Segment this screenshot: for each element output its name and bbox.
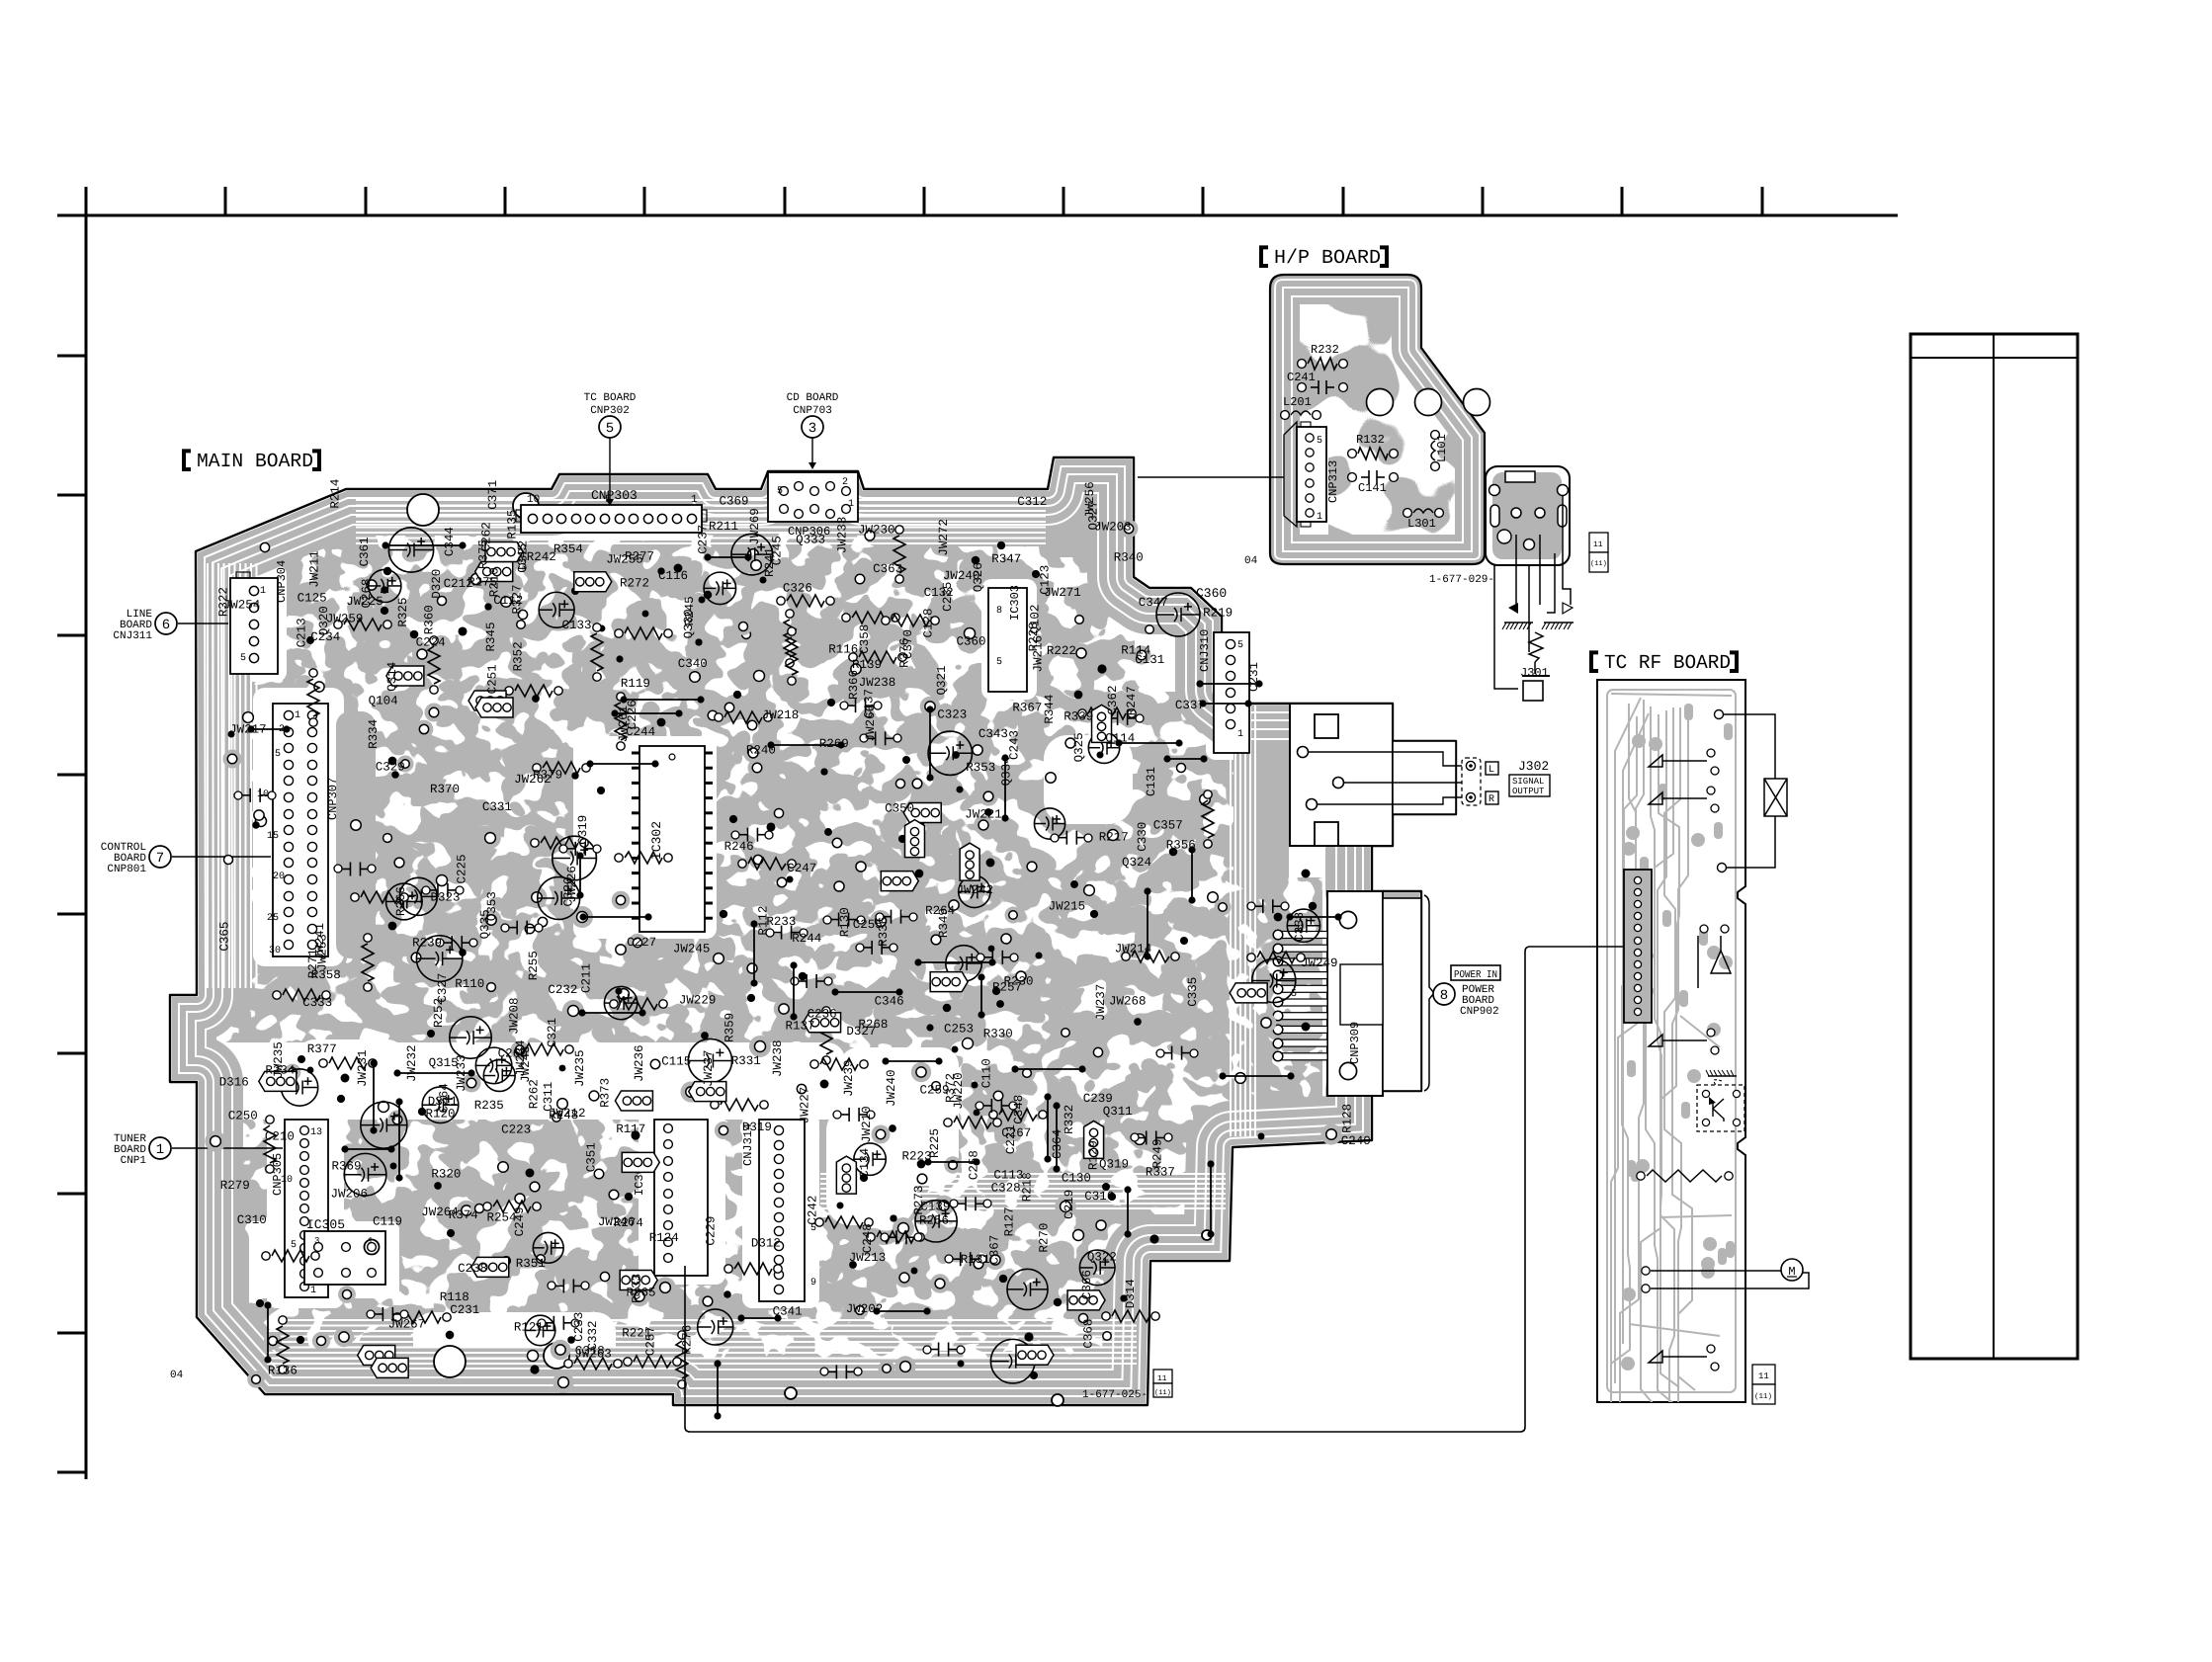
svg-text:Q311: Q311 bbox=[1103, 1105, 1133, 1119]
svg-text:C232: C232 bbox=[548, 983, 577, 997]
svg-text:C134: C134 bbox=[858, 1148, 872, 1178]
svg-text:1: 1 bbox=[691, 494, 698, 506]
svg-text:C341: C341 bbox=[773, 1305, 803, 1319]
J302 terminal plate bbox=[1462, 758, 1481, 805]
svg-text:C125: C125 bbox=[298, 591, 327, 605]
svg-text:C333: C333 bbox=[302, 996, 332, 1010]
svg-text:R222: R222 bbox=[1047, 644, 1076, 658]
mid symbol bbox=[1698, 925, 1731, 988]
IC305 bbox=[304, 1231, 385, 1285]
svg-text:7: 7 bbox=[156, 851, 164, 867]
svg-text:JW208: JW208 bbox=[508, 997, 522, 1035]
svg-text:R347: R347 bbox=[991, 552, 1021, 566]
L101 bbox=[1431, 431, 1440, 440]
svg-text:Q321: Q321 bbox=[935, 665, 949, 695]
C141 bbox=[1348, 473, 1357, 482]
svg-text:1: 1 bbox=[260, 586, 266, 597]
svg-text:C340: C340 bbox=[678, 657, 708, 671]
svg-text:C326: C326 bbox=[783, 581, 812, 595]
svg-text:C367: C367 bbox=[988, 1235, 1002, 1265]
svg-text:C245: C245 bbox=[771, 536, 785, 565]
svg-text:R327: R327 bbox=[510, 584, 524, 614]
CNP313 bbox=[1284, 422, 1297, 527]
svg-text:D322: D322 bbox=[517, 540, 531, 570]
motor bbox=[1642, 1267, 1650, 1275]
svg-text:R256: R256 bbox=[919, 1213, 949, 1227]
svg-text:6: 6 bbox=[162, 618, 170, 633]
svg-text:JW233: JW233 bbox=[836, 517, 850, 554]
svg-text:C310: C310 bbox=[237, 1213, 267, 1227]
svg-text:R340: R340 bbox=[1114, 550, 1144, 564]
svg-text:D319: D319 bbox=[742, 1121, 772, 1134]
svg-text:JW215: JW215 bbox=[1049, 899, 1086, 913]
svg-text:3: 3 bbox=[314, 1236, 319, 1246]
svg-text:R273: R273 bbox=[912, 1186, 926, 1215]
svg-text:C369: C369 bbox=[720, 495, 749, 509]
svg-text:R262: R262 bbox=[528, 1079, 542, 1109]
svg-text:JW226: JW226 bbox=[565, 866, 579, 903]
svg-text:C110: C110 bbox=[980, 1058, 994, 1088]
svg-text:R131: R131 bbox=[961, 1253, 990, 1267]
svg-text:Q324: Q324 bbox=[1122, 856, 1151, 870]
svg-text:R119: R119 bbox=[621, 677, 650, 691]
svg-text:JW210: JW210 bbox=[860, 1106, 874, 1143]
svg-text:C330: C330 bbox=[1136, 822, 1149, 852]
svg-text:C337: C337 bbox=[1175, 699, 1205, 712]
svg-text:CNP304: CNP304 bbox=[275, 560, 289, 603]
svg-text:R217: R217 bbox=[1099, 831, 1129, 845]
svg-text:R264: R264 bbox=[925, 904, 955, 918]
svg-text:R367: R367 bbox=[1012, 702, 1042, 715]
svg-text:R337: R337 bbox=[1146, 1166, 1175, 1180]
main board title bbox=[184, 451, 191, 469]
svg-text:R132: R132 bbox=[1356, 433, 1385, 447]
svg-text:JW242: JW242 bbox=[957, 883, 994, 897]
svg-text:C223: C223 bbox=[501, 1123, 531, 1137]
svg-text:JW271: JW271 bbox=[1044, 586, 1081, 600]
svg-text:R230: R230 bbox=[1004, 975, 1034, 989]
svg-text:R118: R118 bbox=[440, 1290, 469, 1304]
svg-text:JW214: JW214 bbox=[1115, 942, 1152, 956]
svg-text:R330: R330 bbox=[983, 1028, 1013, 1041]
svg-text:JW266: JW266 bbox=[864, 705, 878, 742]
svg-text:R356: R356 bbox=[1166, 838, 1196, 852]
svg-text:5: 5 bbox=[275, 749, 281, 760]
svg-text:5: 5 bbox=[1317, 436, 1322, 447]
svg-text:C115: C115 bbox=[661, 1055, 691, 1069]
svg-text:9: 9 bbox=[810, 1278, 816, 1288]
svg-text:C231: C231 bbox=[450, 1303, 479, 1317]
svg-text:JW236: JW236 bbox=[633, 1044, 646, 1082]
svg-text:JW238: JW238 bbox=[771, 1039, 785, 1077]
svg-text:1: 1 bbox=[368, 1236, 373, 1246]
R232 bbox=[1298, 360, 1307, 369]
svg-text:R: R bbox=[1489, 794, 1494, 805]
svg-text:JW229: JW229 bbox=[679, 994, 717, 1008]
dashed transistor bbox=[1708, 1075, 1737, 1077]
svg-text:R275: R275 bbox=[468, 576, 497, 590]
svg-text:JW256: JW256 bbox=[1083, 481, 1097, 519]
svg-text:Q314: Q314 bbox=[385, 662, 399, 692]
svg-text:1: 1 bbox=[310, 1286, 316, 1296]
svg-text:TC RF BOARD: TC RF BOARD bbox=[1604, 652, 1731, 675]
svg-text:C225: C225 bbox=[456, 854, 469, 883]
svg-text:R345: R345 bbox=[484, 622, 498, 651]
svg-text:CD BOARD: CD BOARD bbox=[787, 392, 839, 404]
svg-text:J301: J301 bbox=[1520, 666, 1549, 680]
svg-text:C119: C119 bbox=[373, 1215, 402, 1229]
svg-text:C227: C227 bbox=[627, 936, 656, 950]
svg-text:SIGNAL: SIGNAL bbox=[1512, 777, 1544, 787]
L301 bbox=[1404, 509, 1412, 518]
svg-text:H/P BOARD: H/P BOARD bbox=[1274, 247, 1381, 270]
svg-text:JW235: JW235 bbox=[573, 1049, 587, 1087]
svg-text:R270: R270 bbox=[1038, 1223, 1052, 1253]
svg-text:C267: C267 bbox=[1001, 1126, 1031, 1140]
svg-text:CNP1: CNP1 bbox=[121, 1155, 147, 1167]
svg-text:04: 04 bbox=[170, 1370, 184, 1381]
svg-text:R332: R332 bbox=[1063, 1105, 1076, 1134]
svg-text:R249: R249 bbox=[1151, 1138, 1165, 1168]
svg-text:C133: C133 bbox=[562, 619, 592, 632]
svg-text:C257: C257 bbox=[644, 1326, 658, 1356]
svg-text:C241: C241 bbox=[1287, 371, 1316, 384]
svg-text:R372: R372 bbox=[944, 1073, 958, 1103]
svg-text:C365: C365 bbox=[218, 922, 232, 952]
svg-text:C361: C361 bbox=[358, 537, 372, 566]
svg-text:C368: C368 bbox=[1081, 1319, 1095, 1349]
J302 jack block bbox=[1290, 704, 1393, 846]
svg-text:R266: R266 bbox=[394, 886, 408, 916]
svg-text:Q335: Q335 bbox=[478, 909, 492, 939]
svg-text:L301: L301 bbox=[1407, 517, 1436, 531]
svg-text:JW238: JW238 bbox=[859, 676, 896, 690]
svg-text:JW218: JW218 bbox=[762, 708, 800, 722]
svg-text:5: 5 bbox=[606, 421, 614, 437]
svg-text:R245: R245 bbox=[683, 596, 697, 625]
svg-text:JW272: JW272 bbox=[937, 519, 951, 556]
svg-text:C331: C331 bbox=[482, 800, 512, 814]
svg-text:C363: C363 bbox=[873, 562, 902, 576]
CNJ310 bbox=[1214, 632, 1249, 753]
svg-text:Q102: Q102 bbox=[1029, 605, 1043, 634]
tc rf symbols bbox=[1649, 755, 1707, 1363]
svg-text:C362: C362 bbox=[1106, 685, 1120, 714]
svg-text:R373: R373 bbox=[598, 1078, 612, 1108]
svg-text:1: 1 bbox=[156, 1142, 164, 1158]
svg-text:C128: C128 bbox=[921, 608, 935, 637]
svg-text:3: 3 bbox=[808, 421, 816, 437]
svg-text:R121: R121 bbox=[514, 1321, 544, 1335]
svg-text:R331: R331 bbox=[731, 1054, 761, 1068]
svg-text:JW234: JW234 bbox=[514, 1039, 528, 1077]
svg-text:R139: R139 bbox=[852, 658, 882, 672]
svg-text:C238: C238 bbox=[458, 1262, 487, 1276]
svg-text:JW221: JW221 bbox=[965, 808, 1002, 822]
svg-text:20: 20 bbox=[273, 872, 285, 882]
svg-text:JW203: JW203 bbox=[1094, 520, 1132, 534]
svg-text:C253: C253 bbox=[944, 1022, 974, 1036]
svg-text:C371: C371 bbox=[486, 480, 500, 510]
svg-text:R333: R333 bbox=[631, 1274, 644, 1303]
svg-text:R124: R124 bbox=[649, 1231, 679, 1245]
svg-text:R117: R117 bbox=[616, 1122, 645, 1136]
svg-text:5: 5 bbox=[996, 657, 1002, 668]
connector CNP304 bbox=[230, 578, 278, 674]
svg-text:R136: R136 bbox=[268, 1364, 298, 1377]
svg-text:C348: C348 bbox=[1012, 1095, 1026, 1124]
crystal bbox=[1715, 710, 1724, 719]
svg-text:C240: C240 bbox=[1341, 1134, 1371, 1148]
svg-text:11: 11 bbox=[1593, 540, 1603, 549]
svg-text:C243: C243 bbox=[1008, 730, 1022, 760]
svg-text:JW213: JW213 bbox=[849, 1251, 887, 1265]
svg-text:C219: C219 bbox=[1063, 1190, 1076, 1219]
svg-text:R255: R255 bbox=[527, 951, 541, 980]
CNP309 bbox=[1327, 891, 1383, 1096]
svg-text:R359: R359 bbox=[723, 1013, 736, 1042]
svg-text:JW233: JW233 bbox=[455, 1054, 468, 1092]
svg-text:C364: C364 bbox=[1051, 1129, 1064, 1159]
svg-text:MAIN BOARD: MAIN BOARD bbox=[197, 451, 313, 473]
svg-text:C132: C132 bbox=[924, 586, 954, 600]
IC304 bbox=[654, 1120, 708, 1276]
svg-text:C328: C328 bbox=[991, 1182, 1021, 1196]
svg-text:R274: R274 bbox=[614, 1216, 643, 1230]
tc rf title bbox=[1591, 652, 1598, 671]
svg-text:C130: C130 bbox=[1062, 1172, 1091, 1186]
long wires bbox=[685, 947, 1624, 1432]
svg-text:5: 5 bbox=[777, 486, 783, 497]
svg-text:1: 1 bbox=[1317, 512, 1322, 523]
svg-text:C249: C249 bbox=[513, 1206, 527, 1236]
svg-text:JW230: JW230 bbox=[858, 523, 895, 537]
svg-text:C335: C335 bbox=[1186, 977, 1200, 1007]
svg-text:JW225: JW225 bbox=[346, 595, 383, 609]
svg-text:C338: C338 bbox=[1293, 912, 1307, 942]
svg-text:JW227: JW227 bbox=[799, 1087, 812, 1124]
svg-text:JW267: JW267 bbox=[388, 1317, 426, 1331]
svg-text:R211: R211 bbox=[709, 520, 738, 534]
svg-text:D327: D327 bbox=[846, 1025, 876, 1039]
right table bbox=[1911, 334, 2078, 1359]
svg-text:Q325: Q325 bbox=[1072, 732, 1086, 762]
mounting holes bbox=[407, 494, 439, 526]
svg-text:R128: R128 bbox=[1341, 1104, 1355, 1133]
svg-text:D312: D312 bbox=[751, 1237, 781, 1251]
svg-text:R271: R271 bbox=[306, 949, 320, 978]
scattered components bbox=[255, 815, 266, 826]
svg-text:C366: C366 bbox=[1080, 1270, 1094, 1299]
svg-text:OUTPUT: OUTPUT bbox=[1512, 787, 1545, 796]
svg-text:C213: C213 bbox=[296, 618, 309, 647]
svg-text:C210: C210 bbox=[265, 1130, 295, 1144]
svg-text:CNP303: CNP303 bbox=[591, 488, 638, 503]
svg-text:JW264: JW264 bbox=[421, 1205, 459, 1219]
svg-text:R239: R239 bbox=[412, 936, 442, 950]
svg-text:R247: R247 bbox=[1125, 686, 1139, 715]
svg-text:10: 10 bbox=[527, 494, 540, 506]
svg-text:5: 5 bbox=[291, 1240, 297, 1251]
svg-text:C360: C360 bbox=[957, 634, 986, 648]
svg-text:(11): (11) bbox=[1754, 1392, 1772, 1401]
svg-text:1: 1 bbox=[848, 499, 854, 510]
svg-text:R135: R135 bbox=[506, 510, 520, 540]
tc rf id boxes bbox=[1752, 1365, 1775, 1384]
svg-text:JW255: JW255 bbox=[606, 552, 643, 566]
svg-text:R234: R234 bbox=[265, 1063, 295, 1077]
tc rf board bbox=[1597, 680, 1745, 1402]
svg-text:04: 04 bbox=[1244, 555, 1258, 567]
svg-text:R279: R279 bbox=[220, 1179, 250, 1193]
svg-text:1: 1 bbox=[1237, 729, 1243, 740]
svg-text:C237: C237 bbox=[696, 525, 710, 554]
svg-text:CNJ310: CNJ310 bbox=[1198, 629, 1212, 672]
C241 bbox=[1298, 383, 1307, 392]
svg-text:C248: C248 bbox=[861, 1223, 875, 1253]
svg-text:JW240: JW240 bbox=[885, 1069, 898, 1107]
svg-text:D311: D311 bbox=[428, 1095, 458, 1109]
svg-text:TC BOARD: TC BOARD bbox=[584, 392, 637, 404]
svg-text:R320: R320 bbox=[431, 1168, 461, 1182]
svg-text:R232: R232 bbox=[1311, 343, 1339, 357]
svg-text:IC303: IC303 bbox=[1008, 585, 1022, 621]
svg-text:C312: C312 bbox=[1017, 495, 1047, 509]
svg-text:25: 25 bbox=[267, 913, 279, 924]
svg-text:C234: C234 bbox=[310, 630, 340, 644]
svg-text:D316: D316 bbox=[219, 1075, 249, 1089]
svg-text:1: 1 bbox=[295, 710, 300, 721]
svg-text:JW249: JW249 bbox=[1301, 956, 1338, 970]
svg-text:R110: R110 bbox=[455, 977, 484, 991]
svg-text:R130: R130 bbox=[838, 907, 852, 937]
hp jack bbox=[1486, 466, 1570, 565]
svg-text:J302: J302 bbox=[1518, 759, 1549, 774]
svg-text:Q322: Q322 bbox=[1087, 1251, 1117, 1265]
svg-text:R242: R242 bbox=[527, 550, 556, 564]
svg-text:C311: C311 bbox=[542, 1082, 555, 1112]
svg-text:C226: C226 bbox=[626, 700, 639, 729]
svg-text:CNP902: CNP902 bbox=[1460, 1006, 1499, 1018]
svg-text:CNP309: CNP309 bbox=[1348, 1022, 1362, 1064]
svg-text:IC305: IC305 bbox=[306, 1217, 345, 1232]
svg-text:13: 13 bbox=[310, 1127, 322, 1138]
svg-text:C351: C351 bbox=[585, 1142, 599, 1172]
svg-text:8: 8 bbox=[996, 606, 1002, 617]
svg-text:R354: R354 bbox=[553, 542, 583, 556]
svg-text:R334: R334 bbox=[367, 719, 381, 749]
main board copper bbox=[170, 457, 1456, 1405]
svg-text:C113: C113 bbox=[993, 1169, 1023, 1183]
svg-text:D314: D314 bbox=[1124, 1279, 1138, 1308]
svg-text:C211: C211 bbox=[579, 963, 593, 993]
svg-text:(11): (11) bbox=[1590, 559, 1607, 568]
connector CNP303 bbox=[521, 505, 702, 533]
svg-text:R322: R322 bbox=[217, 587, 231, 617]
svg-text:JW268: JW268 bbox=[1109, 994, 1147, 1008]
svg-text:C347: C347 bbox=[1139, 596, 1168, 610]
svg-text:C141: C141 bbox=[1358, 481, 1387, 495]
svg-text:R272: R272 bbox=[620, 576, 649, 590]
CNJ314 bbox=[759, 1120, 805, 1301]
R132 bbox=[1348, 450, 1357, 458]
svg-text:C370: C370 bbox=[901, 629, 915, 659]
svg-text:R244: R244 bbox=[792, 932, 821, 946]
svg-text:C229: C229 bbox=[705, 1216, 719, 1246]
svg-text:R377: R377 bbox=[307, 1042, 337, 1056]
svg-text:JW231: JW231 bbox=[356, 1049, 370, 1087]
wire main->CNP313 bbox=[1138, 476, 1284, 478]
IC303 bbox=[988, 588, 1027, 692]
IC302 bbox=[639, 746, 705, 932]
svg-text:JW232: JW232 bbox=[405, 1044, 419, 1082]
svg-text:R369: R369 bbox=[332, 1159, 362, 1173]
svg-text:JW237: JW237 bbox=[702, 1049, 716, 1087]
svg-text:CNP801: CNP801 bbox=[107, 864, 146, 875]
svg-text:C321: C321 bbox=[546, 1018, 559, 1047]
svg-text:C114: C114 bbox=[1105, 732, 1135, 746]
svg-text:C344: C344 bbox=[443, 527, 457, 556]
svg-text:C131: C131 bbox=[1135, 653, 1164, 667]
top ruler line bbox=[57, 187, 1898, 1479]
svg-text:R116: R116 bbox=[828, 643, 858, 657]
svg-text:R352: R352 bbox=[511, 641, 525, 671]
svg-text:Q319: Q319 bbox=[1099, 1158, 1129, 1172]
svg-text:C224: C224 bbox=[416, 635, 446, 649]
svg-text:CNP313: CNP313 bbox=[1326, 460, 1340, 503]
svg-text:L201: L201 bbox=[1283, 395, 1312, 409]
svg-text:C316: C316 bbox=[1084, 1190, 1114, 1204]
svg-text:R137: R137 bbox=[786, 1020, 815, 1034]
svg-text:C116: C116 bbox=[658, 569, 688, 583]
svg-text:C346: C346 bbox=[875, 995, 904, 1009]
svg-text:C233: C233 bbox=[572, 1312, 586, 1342]
svg-text:R276: R276 bbox=[680, 1325, 694, 1355]
svg-text:11: 11 bbox=[1157, 1374, 1167, 1383]
svg-text:C357: C357 bbox=[1153, 818, 1183, 832]
svg-text:R351: R351 bbox=[516, 1257, 546, 1271]
svg-text:R235: R235 bbox=[474, 1099, 504, 1113]
svg-text:C250: C250 bbox=[228, 1110, 258, 1123]
svg-text:JW202: JW202 bbox=[846, 1302, 884, 1316]
tc rf resistor bbox=[1637, 1172, 1645, 1180]
svg-text:R240: R240 bbox=[746, 744, 776, 758]
hp title bbox=[1261, 247, 1268, 266]
svg-text:JW262: JW262 bbox=[514, 773, 552, 787]
svg-text:R219: R219 bbox=[1203, 607, 1233, 621]
svg-text:R325: R325 bbox=[396, 598, 410, 627]
svg-text:R214: R214 bbox=[329, 479, 343, 509]
H/P board bbox=[1270, 275, 1485, 564]
svg-text:R370: R370 bbox=[430, 783, 460, 796]
svg-text:JW217: JW217 bbox=[229, 723, 267, 737]
svg-text:JW259: JW259 bbox=[326, 613, 364, 626]
svg-text:D323: D323 bbox=[431, 891, 461, 905]
svg-text:C329: C329 bbox=[376, 761, 405, 775]
svg-text:30: 30 bbox=[269, 946, 281, 956]
svg-text:(11): (11) bbox=[1154, 1388, 1171, 1397]
svg-text:R336: R336 bbox=[877, 917, 891, 947]
spring bbox=[1529, 632, 1543, 662]
capacitor C360 bbox=[1156, 593, 1200, 636]
svg-text:C327: C327 bbox=[436, 973, 450, 1003]
svg-text:R233: R233 bbox=[766, 915, 796, 929]
svg-text:C323: C323 bbox=[937, 708, 967, 722]
svg-text:L: L bbox=[1489, 765, 1494, 776]
tc rf connector bbox=[1624, 870, 1652, 1023]
svg-text:R127: R127 bbox=[1003, 1206, 1017, 1236]
svg-text:CNJ311: CNJ311 bbox=[113, 630, 152, 642]
